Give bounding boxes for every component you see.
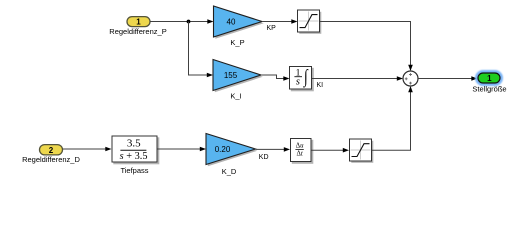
svg-text:2: 2 xyxy=(49,146,54,155)
svg-text:s + 3.5: s + 3.5 xyxy=(120,151,148,162)
derivative block du/dt xyxy=(291,139,314,164)
outport 1 (Stellgroesse) highlight halo xyxy=(477,72,502,85)
transfer function Tiefpass 3.5/(s+3.5) xyxy=(112,136,159,175)
wire inport1 to K_P xyxy=(150,19,214,24)
svg-text:KP: KP xyxy=(267,25,277,32)
gain K_P xyxy=(214,6,264,47)
wire saturation2 to sum (bottom) xyxy=(372,86,413,150)
svg-text:Tiefpass: Tiefpass xyxy=(120,166,148,175)
svg-text:Regeldifferenz_D: Regeldifferenz_D xyxy=(22,155,80,164)
svg-text:1: 1 xyxy=(136,18,141,27)
wire sum to outport xyxy=(418,76,478,81)
wire Tiefpass to K_D xyxy=(158,147,207,152)
integrator block 1/s xyxy=(290,65,314,91)
svg-text:s: s xyxy=(296,76,300,87)
wire integrator to sum (left) xyxy=(312,76,403,81)
svg-text:155: 155 xyxy=(224,71,238,80)
saturation block 2 xyxy=(350,139,374,163)
svg-text:Regeldifferenz_P: Regeldifferenz_P xyxy=(109,27,166,36)
wire inport2 to Tiefpass xyxy=(63,147,112,152)
svg-text:K_P: K_P xyxy=(230,38,244,47)
wire branch junction to K_I xyxy=(189,22,214,78)
wire K_I to integrator xyxy=(261,75,290,81)
sum block xyxy=(403,71,418,86)
gain K_I xyxy=(213,60,263,101)
svg-text:40: 40 xyxy=(227,17,236,26)
wire K_P to saturation1 xyxy=(262,19,298,24)
svg-text:KI: KI xyxy=(317,82,324,89)
svg-text:K_D: K_D xyxy=(222,167,237,176)
wire K_D to derivative xyxy=(256,147,291,152)
inport 2 (Regeldifferenz_D) xyxy=(22,145,80,164)
wire derivative to saturation2 xyxy=(312,148,350,153)
inport 1 (Regeldifferenz_P) xyxy=(109,17,166,36)
wire saturation1 to sum (top) xyxy=(320,22,413,72)
svg-text:Δu: Δu xyxy=(296,143,304,150)
svg-text:0.20: 0.20 xyxy=(215,145,231,154)
outport 1 (Stellgroesse) xyxy=(472,73,506,93)
svg-text:1: 1 xyxy=(487,74,492,83)
saturation block 1 xyxy=(298,10,322,34)
gain K_D xyxy=(206,134,257,177)
svg-text:K_I: K_I xyxy=(230,92,241,101)
svg-text:3.5: 3.5 xyxy=(127,138,141,150)
svg-text:KD: KD xyxy=(259,154,269,161)
node junction on P wire xyxy=(187,20,191,24)
svg-text:Stellgröße: Stellgröße xyxy=(472,84,506,93)
